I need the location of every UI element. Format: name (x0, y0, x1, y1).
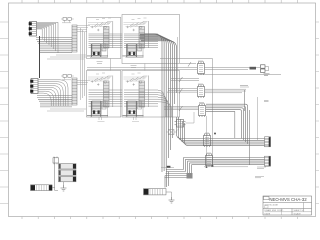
svg-text:NEO-MVS CHA-32: NEO-MVS CHA-32 (269, 197, 307, 202)
svg-text:SYS No.0048: SYS No.0048 (265, 204, 279, 206)
svg-text:SCALE: SCALE (294, 212, 302, 215)
svg-text:DATE: DATE (265, 212, 271, 215)
svg-text:SHEET 1/1: SHEET 1/1 (294, 210, 306, 212)
svg-text:DRAW SNK CORP.: DRAW SNK CORP. (265, 209, 284, 212)
